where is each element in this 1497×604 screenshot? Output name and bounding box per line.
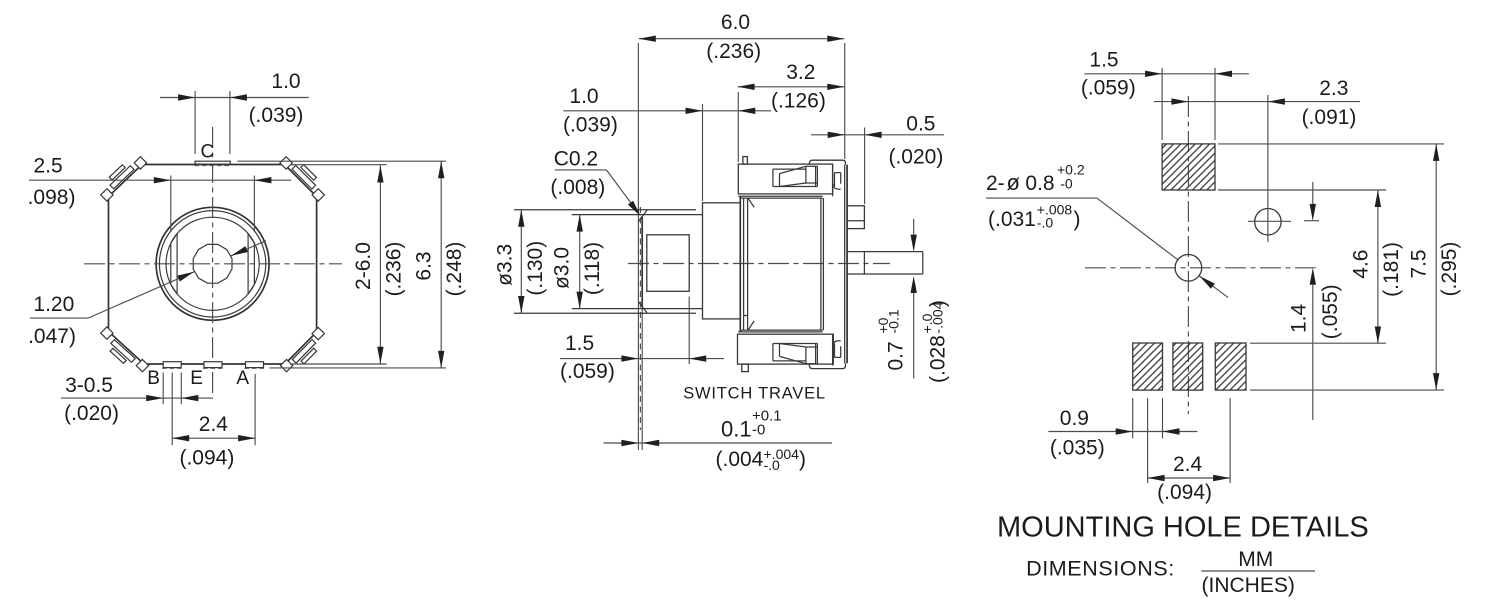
body top pin	[743, 157, 748, 165]
dimension 0.7 dim line	[913, 219, 915, 235]
terminal upper right	[847, 206, 864, 229]
svg-text:2.3: 2.3	[1319, 77, 1348, 100]
svg-text:B: B	[147, 368, 160, 389]
shaft O3.3 bottom edge + ext	[514, 312, 696, 314]
ext line pads-bottom level	[270, 367, 447, 369]
svg-text:1.0: 1.0	[271, 70, 300, 93]
dimension 7.5 ext lines	[1218, 143, 1444, 145]
dimension 1.4 arrows	[1310, 204, 1316, 221]
svg-text:0.7: 0.7	[885, 341, 908, 370]
svg-text:-.0: -.0	[1037, 215, 1054, 231]
ext line body-bottom level	[290, 363, 387, 365]
leader 1.20 arrows	[177, 272, 194, 282]
body bottom pin	[742, 364, 749, 372]
leader 2-O0.8 lines	[986, 197, 1097, 199]
knob inner circle	[166, 217, 259, 310]
svg-text:(.059): (.059)	[560, 360, 615, 383]
knob flat left	[170, 243, 172, 284]
dimension 2.5 dim line	[29, 179, 291, 181]
dimension 1.0 arrows	[178, 94, 195, 100]
shaft flat rectangle	[647, 235, 689, 291]
svg-text:1.20: 1.20	[33, 293, 74, 316]
leader 1.20 underline	[30, 317, 88, 319]
travel line dashed	[639, 207, 641, 430]
dimension (.028) text	[919, 300, 950, 383]
left view horizontal centerline	[84, 263, 342, 265]
dimension 1.0 top-left dim line	[160, 97, 309, 99]
svg-text:ø: ø	[1007, 170, 1020, 195]
svg-text:1.5: 1.5	[1089, 49, 1118, 72]
dimension 3.2 arrows	[738, 84, 755, 90]
dimension 4.6 arrows	[1375, 190, 1381, 207]
shaft chamfer bottom	[638, 302, 647, 313]
body cavity right walls	[820, 198, 822, 330]
clip detail top right	[832, 165, 834, 197]
right hole cross	[1248, 220, 1291, 222]
dimension 2.3 dim line	[1154, 101, 1360, 103]
mounting pad top (hatched)	[1162, 144, 1215, 190]
svg-text:(.059): (.059)	[1081, 77, 1136, 100]
corner clip bottom-right	[292, 340, 315, 364]
dimension 3-0.5 ext lines	[162, 373, 164, 405]
svg-text:(.236): (.236)	[706, 40, 761, 63]
dimension 0.5 dim line	[811, 134, 944, 136]
shaft chamfer top	[638, 210, 647, 221]
svg-text:6.0: 6.0	[721, 11, 750, 34]
left view body outline (top view of switch)	[109, 165, 317, 365]
dimension 6.0 ext right	[844, 43, 846, 159]
dimension 1.5 arrows	[621, 355, 638, 361]
svg-text:(INCHES): (INCHES)	[1202, 574, 1295, 597]
svg-text:-.0: -.0	[764, 457, 781, 473]
svg-text:-0.1: -0.1	[886, 309, 902, 333]
leader 1.20 line upper	[231, 241, 266, 256]
dimension 3-0.5 arrows	[146, 395, 163, 401]
svg-text:(.035): (.035)	[1050, 437, 1105, 460]
svg-text:(.039): (.039)	[563, 114, 618, 137]
dimension 6.3 dim line	[440, 161, 442, 368]
dimension 1.0 mid dim line	[563, 110, 771, 112]
dimension O3.0 dim line	[579, 215, 581, 309]
dimension 2.4r ext line	[1229, 398, 1231, 483]
right view vertical centerline	[1187, 96, 1189, 414]
svg-text:(.031: (.031	[988, 208, 1036, 231]
dimension 1.5r arrows	[1145, 71, 1162, 77]
svg-text:(.039): (.039)	[249, 104, 304, 127]
corner clip top-left	[110, 166, 134, 189]
corner clip top-right	[292, 166, 316, 190]
mounting pad bottom 2 (hatched)	[1173, 343, 1203, 390]
knob outer circle inner line	[159, 211, 265, 317]
body cavity left walls	[743, 198, 745, 330]
svg-text:(.008): (.008)	[550, 176, 605, 199]
body cavity step	[744, 315, 748, 317]
svg-text:+0.1: +0.1	[752, 408, 782, 425]
latch wedge bottom	[773, 360, 806, 362]
dimension 0.5 arrows	[828, 132, 845, 138]
terminal pad E	[204, 362, 222, 368]
svg-text:(.004: (.004	[716, 448, 764, 471]
svg-text:(.020): (.020)	[888, 146, 943, 169]
dimension 0.7 arrows	[911, 235, 917, 252]
dimension 6.3 arrows	[438, 161, 444, 178]
middle view horizontal centerline	[628, 263, 890, 265]
body bottom-right rounded bar	[809, 363, 845, 368]
dimension 3-0.5 dim line	[61, 397, 212, 399]
dimension 6.0 dim line	[639, 38, 845, 40]
svg-text:A: A	[236, 368, 249, 389]
dimension 2-6.0 arrows	[377, 166, 383, 183]
right hole O0.8	[1255, 209, 1281, 235]
svg-text:0.9: 0.9	[1060, 407, 1089, 430]
dimension 0.1 arrows	[621, 440, 638, 446]
terminal middle right	[847, 251, 923, 253]
svg-text:(.118): (.118)	[581, 242, 604, 295]
dimension 1.5r ext	[1161, 68, 1163, 140]
svg-text:1.0: 1.0	[569, 85, 598, 108]
svg-text:2-: 2-	[986, 172, 1005, 195]
dimension 1.0 mid ext	[702, 104, 704, 201]
svg-text:(.091): (.091)	[1302, 106, 1357, 129]
dimension 7.5 dim line	[1435, 144, 1437, 390]
body ledge top	[738, 195, 822, 197]
leader C0.2	[555, 169, 607, 171]
shaft face line	[641, 216, 643, 307]
svg-text:DIMENSIONS:: DIMENSIONS:	[1026, 557, 1175, 581]
svg-text:(.094): (.094)	[179, 447, 234, 470]
left view vertical centerline	[212, 127, 214, 399]
dimension 1.0 mid arrows	[686, 108, 703, 114]
svg-text:(.028: (.028	[927, 335, 950, 383]
body right edge	[844, 165, 846, 363]
dimension 0.9 arrows	[1116, 428, 1133, 434]
svg-text:2.5: 2.5	[34, 155, 63, 178]
dimension 4.6 ext lines	[1218, 189, 1386, 191]
shaft O3.3 top edge + ext	[514, 209, 696, 211]
svg-text:(.295): (.295)	[1438, 242, 1461, 297]
dimension 2.4 ext line right	[254, 374, 256, 445]
collar	[703, 203, 741, 319]
svg-text:(.055): (.055)	[1319, 284, 1342, 339]
terminal pad B	[163, 362, 181, 368]
travel line outer (solid)	[637, 43, 639, 450]
body left face	[739, 196, 741, 332]
ext line body-top level	[290, 164, 387, 166]
svg-text:): )	[927, 300, 950, 307]
svg-text:0.8: 0.8	[1025, 172, 1054, 195]
svg-text:C: C	[201, 142, 215, 163]
body cavity corner chamfer top	[748, 198, 754, 207]
dimension 2.4 dim line	[172, 437, 255, 439]
shaft O3.0 top edge + ext	[572, 214, 703, 216]
svg-text:(.130): (.130)	[524, 241, 547, 296]
dimension 1.5r dim line	[1084, 73, 1249, 75]
dimension 0.5 ext	[864, 128, 866, 205]
svg-text:4.6: 4.6	[1349, 249, 1372, 278]
body top flange	[738, 164, 832, 194]
dimension 1.0 ext lines	[194, 91, 196, 154]
dimension 1.4 dim line	[1312, 182, 1314, 204]
svg-text:2.4: 2.4	[199, 413, 229, 436]
svg-text:3-0.5: 3-0.5	[65, 374, 113, 397]
ext line pad-top level	[238, 160, 447, 162]
dimension 2-6.0 dim line	[379, 166, 381, 364]
fraction line	[1201, 570, 1315, 572]
svg-text:.047): .047)	[28, 325, 76, 348]
dimension 3.2 dim line	[738, 86, 845, 88]
latch wedge top	[773, 168, 806, 170]
shaft O3.0 bottom edge + ext	[572, 308, 703, 310]
svg-text:(.020): (.020)	[64, 402, 119, 425]
dimension 1.4 ext line	[1304, 220, 1319, 222]
svg-text:(.236): (.236)	[382, 242, 405, 297]
svg-text:(.094): (.094)	[1157, 481, 1212, 504]
body top-right rounded bar	[809, 160, 845, 165]
dimension 2.4 arrows	[172, 435, 189, 441]
dimension 3.2 ext left	[737, 92, 739, 162]
dimension 0.9 ext lines	[1132, 398, 1134, 438]
shaft face extension down	[641, 307, 643, 450]
dimension 2.5 ext lines	[170, 176, 172, 233]
dimension 6.0 arrows	[639, 36, 656, 42]
svg-text:ø3.0: ø3.0	[551, 247, 574, 289]
dimension 2.3 arrows	[1171, 98, 1188, 104]
body ledge bottom	[738, 331, 822, 333]
terminal pad C (top)	[195, 161, 230, 164]
svg-text:7.5: 7.5	[1408, 249, 1431, 278]
dimension O3.3 arrows	[518, 210, 524, 227]
dimension 1.5 dim line	[560, 358, 724, 360]
shaft tip dodecagon	[193, 244, 232, 283]
svg-text:(.126): (.126)	[771, 90, 826, 113]
mounting pad bottom 3 (hatched)	[1215, 343, 1246, 390]
dimension O3.0 arrows	[577, 215, 583, 232]
clip detail bottom right	[832, 334, 834, 366]
svg-text:1.4: 1.4	[1287, 303, 1310, 333]
dimension 2.4r dim line	[1148, 477, 1231, 479]
svg-text:(.248): (.248)	[443, 242, 466, 297]
leader 1.20 line lower	[88, 272, 194, 318]
dimension 7.5 arrows	[1433, 144, 1439, 161]
svg-text:MOUNTING HOLE DETAILS: MOUNTING HOLE DETAILS	[997, 512, 1369, 544]
body cavity corner chamfer bottom	[748, 321, 754, 330]
svg-text:0.5: 0.5	[906, 113, 935, 136]
right view horizontal centerline	[1085, 267, 1316, 269]
svg-text:SWITCH TRAVEL: SWITCH TRAVEL	[683, 385, 826, 403]
corner clip bottom-left	[111, 340, 135, 363]
dimension 0.7 text	[875, 309, 908, 370]
dimension 2.4r arrows	[1148, 475, 1165, 481]
ext line 1.5 (flat end)	[688, 297, 690, 365]
dimension 4.6 dim line	[1377, 190, 1379, 344]
knob flat right	[253, 243, 255, 284]
svg-text:2-6.0: 2-6.0	[352, 242, 375, 290]
svg-text:(.181): (.181)	[1380, 242, 1403, 297]
terminal pad A	[246, 362, 264, 368]
dimension 0.9 dim line	[1048, 431, 1197, 433]
svg-text:1.5: 1.5	[565, 332, 594, 355]
svg-text:-0: -0	[1060, 176, 1073, 192]
dimension 0.1 dim line	[604, 442, 833, 444]
body bottom flange	[738, 334, 834, 364]
leader 2-O0.8 arrow	[1199, 276, 1215, 289]
svg-text:.098): .098)	[28, 186, 76, 209]
dimension 2.5 arrows	[154, 177, 171, 183]
center hole O0.8	[1175, 254, 1202, 281]
svg-text:6.3: 6.3	[413, 251, 436, 280]
dimension O3.3 dim line	[520, 210, 522, 313]
svg-text:): )	[1074, 208, 1081, 231]
svg-text:): )	[799, 448, 806, 471]
mounting pad bottom 1 (hatched)	[1133, 343, 1163, 390]
knob outer circle	[156, 207, 269, 320]
svg-text:0.1: 0.1	[721, 417, 752, 442]
svg-text:3.2: 3.2	[786, 61, 815, 84]
svg-text:MM: MM	[1238, 548, 1273, 571]
svg-text:2.4: 2.4	[1173, 453, 1203, 476]
svg-text:C0.2: C0.2	[554, 148, 598, 171]
svg-text:E: E	[190, 368, 203, 389]
svg-text:ø3.3: ø3.3	[493, 244, 516, 286]
